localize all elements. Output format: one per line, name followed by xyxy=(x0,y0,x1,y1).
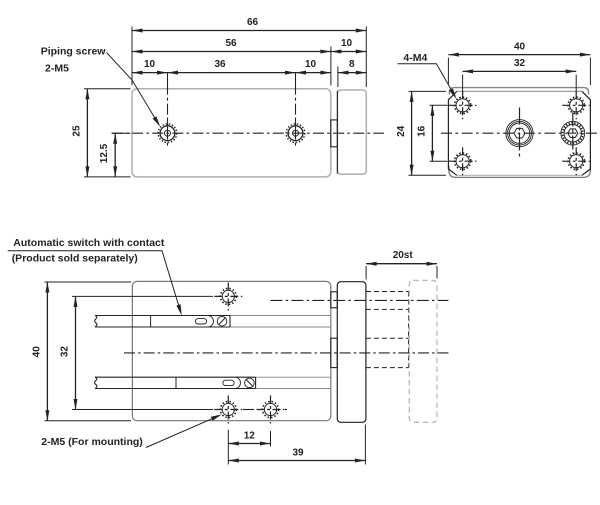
svg-text:8: 8 xyxy=(349,59,355,70)
svg-text:56: 56 xyxy=(225,38,237,49)
svg-text:4-M4: 4-M4 xyxy=(403,52,427,64)
cylinder body silhouette bottom edge (end view) xyxy=(449,166,590,178)
svg-text:20st: 20st xyxy=(393,250,414,261)
switch rail hole top xyxy=(214,282,242,310)
svg-text:10: 10 xyxy=(144,59,156,70)
extension lines (side view left dims) xyxy=(84,89,131,177)
svg-text:(Product sold separately): (Product sold separately) xyxy=(12,253,138,265)
piston bushing middle xyxy=(331,338,338,367)
end plate (side view) xyxy=(337,90,366,174)
main centreline (bottom view) xyxy=(124,352,448,354)
svg-text:Automatic switch with contact: Automatic switch with contact xyxy=(13,237,165,249)
svg-text:24: 24 xyxy=(396,125,407,137)
svg-text:10: 10 xyxy=(305,59,317,70)
leader line piping screw xyxy=(107,53,161,127)
svg-text:12: 12 xyxy=(244,431,256,442)
extension lines (bottom view left dims) xyxy=(45,282,132,421)
svg-text:2-M5 (For mounting): 2-M5 (For mounting) xyxy=(41,436,142,448)
dimension 10 (left) xyxy=(132,59,168,74)
hex socket port (end view right) xyxy=(561,113,585,154)
label automatic switch xyxy=(12,237,165,265)
dimension 12.5 xyxy=(99,133,117,177)
piping port hole right xyxy=(286,124,305,143)
piping port hole left xyxy=(158,124,177,143)
dimension 39 xyxy=(228,447,365,462)
svg-text:10: 10 xyxy=(341,38,353,49)
dimension 16 xyxy=(417,105,435,161)
centre rod hole (end view) xyxy=(506,108,533,159)
switch slot lines top xyxy=(230,316,331,328)
horizontal centreline (side view) xyxy=(112,132,384,134)
dimension 36 xyxy=(168,59,296,74)
mounting hole 4-M4 top-right xyxy=(562,91,590,119)
label Piping screw xyxy=(41,45,107,74)
hole row line top xyxy=(72,295,213,297)
rod bushing top xyxy=(331,292,338,308)
svg-text:36: 36 xyxy=(214,59,226,70)
hidden piston (dashed) xyxy=(366,338,409,367)
end plate (bottom view) xyxy=(337,282,366,423)
auto switch bottom xyxy=(95,377,256,389)
dimension 56 xyxy=(132,38,331,53)
svg-text:2-M5: 2-M5 xyxy=(45,63,69,75)
main centreline (end view) xyxy=(441,132,597,134)
cylinder body (side view) xyxy=(132,89,331,177)
mounting hole 4-M4 top-left xyxy=(449,91,477,119)
svg-text:39: 39 xyxy=(292,447,304,458)
svg-text:Piping screw: Piping screw xyxy=(41,45,107,57)
dimension 32 (bottom view) xyxy=(60,296,78,409)
svg-text:16: 16 xyxy=(417,125,428,137)
svg-text:32: 32 xyxy=(60,346,71,358)
dimension 40 (bottom view) xyxy=(31,282,49,421)
label 4-M4 xyxy=(403,52,427,64)
extension lines (end view top dims) xyxy=(448,58,590,95)
svg-text:66: 66 xyxy=(247,17,259,28)
extension lines (side view top dims) xyxy=(132,27,366,88)
extension lines (end view left dims) xyxy=(409,91,448,175)
dimension 66 xyxy=(132,17,366,33)
leader line 2-M5 xyxy=(146,414,222,447)
svg-text:40: 40 xyxy=(31,346,42,358)
mounting hole 2-M5 right xyxy=(257,396,285,424)
extended plate (phantom) xyxy=(409,280,437,422)
dimension 40 (end view) xyxy=(448,41,590,56)
svg-text:40: 40 xyxy=(514,41,526,52)
dimension 25 xyxy=(71,89,89,177)
mounting hole 2-M5 left xyxy=(214,396,242,424)
mounting hole 4-M4 bottom-left xyxy=(449,147,477,175)
end plate outline (end view) xyxy=(448,91,590,175)
svg-text:12.5: 12.5 xyxy=(99,143,110,163)
hole centreline right xyxy=(295,73,297,148)
rod centreline xyxy=(271,299,449,301)
dimension 8 xyxy=(338,59,366,74)
hole centreline left xyxy=(167,73,169,148)
extension lines 20st xyxy=(366,266,437,280)
dimension 24 xyxy=(396,91,413,175)
dimension 12 xyxy=(228,431,270,446)
auto switch top xyxy=(95,316,230,328)
switch slot lines bottom xyxy=(256,377,331,388)
hole row line bottom xyxy=(72,409,287,411)
label 2-M5 for mounting xyxy=(41,436,142,448)
hidden rod (dashed) xyxy=(366,292,409,368)
dimension 10 (top right) xyxy=(331,38,366,53)
cylinder body (bottom view) xyxy=(132,281,330,420)
dimension 32 (end view) xyxy=(463,58,577,73)
leader line automatic switch xyxy=(8,251,182,316)
dimension 20st xyxy=(366,250,437,266)
dimension 10 (right) xyxy=(296,59,331,74)
piston rod (side view) xyxy=(331,120,338,147)
extension lines 12 and 39 xyxy=(228,425,365,465)
svg-text:25: 25 xyxy=(71,125,82,137)
mounting hole 4-M4 bottom-right xyxy=(562,147,590,175)
leader line 4-M4 xyxy=(398,64,457,99)
svg-text:32: 32 xyxy=(514,58,526,69)
cylinder body silhouette top edge (end view) xyxy=(449,88,588,95)
